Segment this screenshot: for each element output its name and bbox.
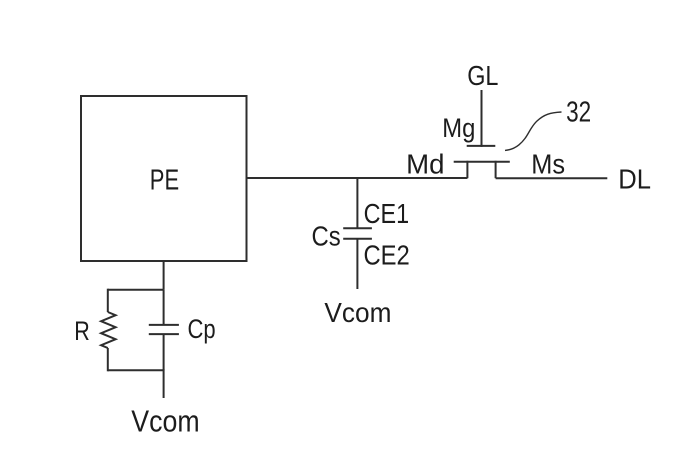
label DL <box>618 164 651 195</box>
transistor gate bar (Mg) <box>467 145 496 147</box>
svg-text:Ms: Ms <box>531 148 565 179</box>
svg-text:Md: Md <box>406 148 444 179</box>
wire: top bar of R and Cp parallel network <box>108 289 164 291</box>
wire: PE right edge to transistor drain leg <box>247 177 468 179</box>
net label Vcom bottom <box>131 405 199 439</box>
capacitor Cs plate CE1 <box>343 227 372 229</box>
svg-text:Vcom: Vcom <box>131 405 199 439</box>
svg-text:CE1: CE1 <box>364 199 409 229</box>
wire: PE bottom to R-Cp network <box>163 261 165 290</box>
svg-text:Mg: Mg <box>442 114 475 144</box>
resistor R top lead <box>107 289 109 312</box>
reference numeral 32 <box>566 97 591 128</box>
resistor R zigzag <box>101 312 116 348</box>
label Md <box>406 148 444 179</box>
label R <box>74 317 90 347</box>
svg-text:Cp: Cp <box>188 315 216 345</box>
label CE1 <box>364 199 409 229</box>
capacitor Cs plate CE2 <box>343 238 372 240</box>
leader line from 32 to transistor <box>505 112 562 150</box>
label PE <box>150 165 179 196</box>
svg-text:Vcom: Vcom <box>324 296 391 328</box>
resistor R bottom lead <box>107 348 109 371</box>
capacitor Cs upper lead (tap from main wire) <box>356 178 358 228</box>
svg-text:GL: GL <box>467 61 498 91</box>
transistor source leg (Ms) <box>495 161 497 178</box>
svg-text:DL: DL <box>618 164 651 195</box>
wire: network bottom to Vcom <box>163 369 165 398</box>
transistor drain leg (Md) <box>466 161 468 178</box>
label Cp <box>188 315 216 345</box>
label Ms <box>531 148 565 179</box>
label Mg <box>442 114 475 144</box>
capacitor Cp upper lead <box>163 290 165 325</box>
transistor channel bar <box>454 161 510 163</box>
svg-text:PE: PE <box>150 165 179 196</box>
pixel electrode PE box <box>81 96 247 261</box>
wire: bottom bar of R and Cp parallel network <box>108 369 164 371</box>
svg-text:CE2: CE2 <box>364 239 410 271</box>
transistor gate lead from GL <box>481 90 483 147</box>
svg-text:Cs: Cs <box>312 220 341 252</box>
net label Vcom below Cs <box>324 296 391 328</box>
capacitor Cp lower lead <box>163 334 165 370</box>
label Cs <box>312 220 341 252</box>
capacitor Cs lower lead to Vcom <box>356 239 358 289</box>
label GL <box>467 61 498 91</box>
capacitor Cp top plate <box>149 324 179 326</box>
capacitor Cp bottom plate <box>149 333 179 335</box>
label CE2 <box>364 239 410 271</box>
wire: transistor source to data line DL <box>496 177 608 179</box>
svg-text:32: 32 <box>566 97 591 128</box>
svg-text:R: R <box>74 317 90 347</box>
